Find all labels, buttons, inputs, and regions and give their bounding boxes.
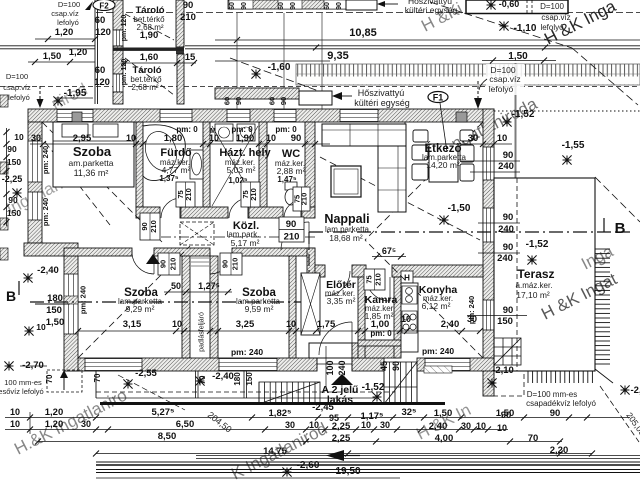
svg-text:10: 10 bbox=[10, 407, 20, 417]
dim line row3 bbox=[38, 441, 562, 443]
wardrobe bedroom2 bbox=[301, 273, 320, 335]
window bottom wall 2 bbox=[219, 359, 277, 371]
svg-text:am.parketta: am.parketta bbox=[69, 158, 114, 168]
svg-text:90: 90 bbox=[279, 97, 288, 105]
hatch strip below kitchen bbox=[424, 366, 452, 373]
svg-text:90: 90 bbox=[503, 150, 514, 161]
window bottom wall 3 bbox=[425, 359, 470, 371]
svg-text:210: 210 bbox=[249, 188, 258, 201]
svg-text:10: 10 bbox=[286, 319, 296, 329]
svg-text:210: 210 bbox=[180, 12, 196, 23]
svg-text:10: 10 bbox=[10, 419, 20, 429]
window east wall bbox=[483, 208, 494, 242]
storage wall with windows bbox=[113, 0, 123, 30]
svg-text:-2,: -2, bbox=[630, 385, 640, 396]
svg-text:10: 10 bbox=[172, 319, 182, 329]
black triangle marker bbox=[146, 254, 160, 264]
partition V4 WC|Nappali bbox=[305, 122, 315, 207]
svg-text:210: 210 bbox=[300, 193, 309, 206]
svg-text:-1,60: -1,60 bbox=[268, 62, 291, 73]
svg-text:32⁵: 32⁵ bbox=[401, 407, 416, 418]
svg-text:30: 30 bbox=[81, 419, 91, 429]
left dim chain bbox=[6, 128, 8, 226]
toilet bbox=[285, 182, 297, 190]
svg-text:120: 120 bbox=[94, 77, 110, 88]
svg-text:2,40: 2,40 bbox=[441, 319, 460, 330]
svg-text:-2,25: -2,25 bbox=[2, 174, 23, 184]
entry steps left bbox=[47, 370, 82, 392]
svg-text:pm: 240: pm: 240 bbox=[41, 198, 50, 226]
svg-text:17,10 m²: 17,10 m² bbox=[516, 290, 550, 300]
svg-text:210: 210 bbox=[168, 258, 177, 271]
svg-text:90: 90 bbox=[290, 2, 297, 10]
stairs center bbox=[259, 382, 320, 404]
wall band above building (canopy) bbox=[215, 88, 299, 99]
svg-text:210: 210 bbox=[149, 220, 158, 233]
svg-text:1,20: 1,20 bbox=[45, 407, 64, 418]
svg-text:csap.víz: csap.víz bbox=[3, 83, 31, 92]
svg-text:á.máz.ker.: á.máz.ker. bbox=[516, 281, 553, 290]
svg-text:4,00: 4,00 bbox=[435, 433, 454, 444]
bed bbox=[53, 122, 134, 187]
svg-text:-2,40: -2,40 bbox=[37, 265, 59, 276]
property dashed line bbox=[96, 12, 640, 14]
svg-text:pm: 120: pm: 120 bbox=[121, 15, 128, 42]
door 90/210 bedroom lower1 bbox=[158, 253, 180, 275]
leader lines bbox=[236, 13, 238, 109]
svg-text:9,35: 9,35 bbox=[327, 50, 348, 62]
window west wall lower bbox=[64, 274, 78, 334]
svg-text:Nappali: Nappali bbox=[324, 212, 369, 226]
door arc WC bbox=[284, 200, 302, 218]
svg-text:5,17 m²: 5,17 m² bbox=[231, 238, 260, 248]
svg-text:8,50: 8,50 bbox=[158, 431, 177, 442]
svg-text:210: 210 bbox=[184, 188, 193, 201]
roof hip dashes bbox=[42, 122, 162, 242]
svg-text:18,68 m²: 18,68 m² bbox=[329, 233, 363, 243]
svg-text:lefolyó: lefolyó bbox=[489, 84, 514, 94]
west step wall bbox=[24, 243, 78, 256]
coffee table bbox=[331, 166, 361, 197]
road lines bottom bbox=[196, 455, 640, 457]
spot -2,10 right edge bbox=[620, 385, 629, 394]
door arc Házt.hely bbox=[229, 198, 249, 218]
window top wall x57 bbox=[57, 110, 93, 122]
kitchen counter bbox=[401, 283, 418, 352]
svg-text:1,80: 1,80 bbox=[164, 133, 183, 144]
dim line row2 bbox=[30, 429, 508, 431]
svg-text:10: 10 bbox=[266, 133, 276, 143]
south walkway lines bbox=[95, 371, 97, 398]
svg-text:240: 240 bbox=[497, 253, 513, 264]
wall H2b north of Előtér/Kamra/Konyha bbox=[315, 265, 325, 277]
svg-text:70: 70 bbox=[528, 433, 539, 444]
dim 50 1,27 bbox=[164, 291, 232, 293]
svg-text:10: 10 bbox=[309, 420, 319, 430]
svg-text:100 mm-es: 100 mm-es bbox=[4, 378, 42, 387]
dashed site diagonals bbox=[230, 58, 332, 96]
svg-text:3,35 m²: 3,35 m² bbox=[327, 296, 356, 306]
svg-text:kültéri egység: kültéri egység bbox=[354, 98, 410, 108]
door arc entrance bbox=[319, 322, 352, 355]
storage roof dashes bbox=[125, 14, 174, 40]
svg-text:2,25: 2,25 bbox=[332, 433, 351, 444]
svg-text:30: 30 bbox=[468, 133, 479, 144]
svg-text:30: 30 bbox=[380, 420, 390, 430]
svg-text:1,50: 1,50 bbox=[46, 317, 65, 328]
svg-text:90: 90 bbox=[234, 97, 243, 105]
door arc Fürdő bbox=[161, 198, 181, 218]
window top wall x227 bbox=[227, 110, 250, 122]
street line bbox=[215, 39, 640, 41]
svg-text:70: 70 bbox=[45, 374, 54, 383]
plot boundary grey bbox=[515, 63, 517, 178]
partition V3 Házt|WC bbox=[259, 122, 267, 207]
svg-text:90: 90 bbox=[336, 2, 343, 10]
concrete pier bbox=[72, 112, 82, 122]
svg-text:15: 15 bbox=[185, 52, 196, 63]
left vertical for rows bbox=[29, 412, 31, 434]
window top wall x274 bbox=[274, 110, 296, 122]
svg-text:90: 90 bbox=[140, 222, 149, 230]
svg-text:lefolyó: lefolyó bbox=[8, 93, 30, 102]
svg-text:lefolyó: lefolyó bbox=[540, 23, 564, 32]
svg-text:10: 10 bbox=[497, 423, 507, 433]
svg-text:90: 90 bbox=[8, 195, 18, 205]
window top wall x340 bbox=[340, 110, 378, 122]
door 75/210 fürdő bbox=[176, 182, 195, 207]
svg-text:D=100 mm-es: D=100 mm-es bbox=[527, 390, 577, 399]
svg-text:pm: 120: pm: 120 bbox=[121, 59, 128, 86]
svg-text:240: 240 bbox=[337, 360, 347, 375]
svg-text:1,90: 1,90 bbox=[140, 30, 159, 41]
svg-text:2,25: 2,25 bbox=[332, 421, 351, 432]
svg-text:D=100: D=100 bbox=[58, 0, 80, 9]
washbasin bbox=[190, 150, 203, 179]
svg-text:3,25: 3,25 bbox=[236, 319, 255, 330]
terrace outline bbox=[494, 178, 595, 371]
svg-text:240: 240 bbox=[498, 224, 514, 235]
svg-text:90: 90 bbox=[183, 0, 194, 11]
window top wall x160 bbox=[160, 110, 192, 122]
svg-text:30: 30 bbox=[31, 133, 41, 143]
storage east wall bbox=[176, 0, 184, 47]
svg-text:-1,52: -1,52 bbox=[512, 109, 535, 120]
svg-text:kültéri egység: kültéri egység bbox=[405, 5, 458, 15]
svg-text:210: 210 bbox=[374, 273, 383, 286]
door arc Kamra bbox=[366, 277, 390, 301]
svg-text:240: 240 bbox=[498, 161, 514, 172]
svg-text:-1,55: -1,55 bbox=[562, 140, 585, 151]
svg-text:60: 60 bbox=[268, 97, 277, 105]
svg-text:1,75: 1,75 bbox=[317, 319, 336, 330]
svg-text:csap.víz: csap.víz bbox=[541, 13, 570, 22]
stairs right of entrance bbox=[384, 362, 417, 404]
svg-text:150: 150 bbox=[7, 208, 21, 218]
svg-text:30: 30 bbox=[285, 420, 295, 430]
svg-text:150: 150 bbox=[7, 157, 21, 167]
building bottom wall bbox=[64, 358, 317, 371]
door 75/210 kamra bbox=[364, 269, 385, 290]
svg-text:pm: 240: pm: 240 bbox=[422, 346, 454, 356]
svg-text:-2,40: -2,40 bbox=[212, 371, 234, 382]
svg-text:10: 10 bbox=[209, 133, 219, 143]
corridor boundary dash-dot bbox=[143, 236, 315, 238]
svg-text:11,36 m²: 11,36 m² bbox=[74, 168, 109, 178]
svg-text:D=100: D=100 bbox=[540, 2, 564, 11]
svg-text:1,20: 1,20 bbox=[45, 419, 64, 430]
svg-text:pm: 0: pm: 0 bbox=[231, 125, 253, 134]
fence hatched band bbox=[228, 0, 352, 9]
marker F2 bbox=[93, 0, 115, 11]
svg-text:pm: 240: pm: 240 bbox=[231, 347, 263, 357]
svg-text:90: 90 bbox=[550, 408, 561, 419]
downpipe arrow top-left bbox=[39, 86, 41, 99]
svg-text:90: 90 bbox=[503, 242, 514, 253]
svg-text:2,20: 2,20 bbox=[550, 445, 569, 456]
sofa bbox=[322, 124, 406, 146]
svg-text:1,47⁵: 1,47⁵ bbox=[277, 175, 297, 184]
svg-text:210: 210 bbox=[284, 232, 300, 243]
heat pump unit 1 bbox=[346, 0, 377, 10]
attic ladder rungs bbox=[191, 258, 209, 266]
svg-text:60: 60 bbox=[324, 2, 331, 10]
svg-text:-1,10: -1,10 bbox=[514, 23, 537, 34]
svg-text:2,40: 2,40 bbox=[429, 421, 448, 432]
washing machines bbox=[215, 124, 233, 141]
kitchen door east wall bbox=[483, 300, 494, 330]
svg-text:lefolyó: lefolyó bbox=[57, 18, 79, 27]
svg-text:10,85: 10,85 bbox=[349, 27, 377, 39]
svg-text:90: 90 bbox=[241, 2, 248, 10]
svg-text:180: 180 bbox=[47, 293, 63, 304]
svg-text:90: 90 bbox=[221, 260, 230, 268]
door arc corridor-Nappali bbox=[281, 222, 309, 250]
svg-text:10: 10 bbox=[476, 421, 486, 431]
svg-text:180: 180 bbox=[233, 372, 242, 386]
svg-text:csap.víz: csap.víz bbox=[51, 9, 79, 18]
appliance cross Házt.hely bbox=[212, 126, 258, 206]
svg-text:H: H bbox=[404, 274, 410, 283]
svg-text:-2,55: -2,55 bbox=[135, 368, 157, 379]
svg-text:75: 75 bbox=[364, 275, 373, 283]
door 90/210 bedroom1 top bbox=[140, 213, 160, 240]
Kamra bottom wall bbox=[358, 340, 407, 346]
dim row top rooms bbox=[30, 143, 330, 145]
svg-text:10: 10 bbox=[361, 420, 371, 430]
svg-text:esővíz lefolyó: esővíz lefolyó bbox=[0, 387, 44, 396]
bathtub bbox=[143, 125, 185, 181]
svg-text:2,95: 2,95 bbox=[73, 133, 92, 144]
svg-text:60: 60 bbox=[229, 2, 236, 10]
svg-text:90: 90 bbox=[159, 260, 168, 268]
dim row lower rooms bbox=[78, 330, 480, 332]
svg-text:Terasz: Terasz bbox=[517, 267, 554, 281]
dashed line below strip bbox=[0, 86, 640, 88]
storage building west wall line bbox=[94, 0, 96, 104]
svg-text:B: B bbox=[615, 220, 626, 237]
svg-text:120: 120 bbox=[95, 27, 111, 38]
svg-text:5,03 m²: 5,03 m² bbox=[227, 165, 256, 175]
svg-text:-1,52: -1,52 bbox=[362, 382, 385, 393]
door arc bedroom2 bbox=[210, 252, 232, 274]
door 90/210 bedroom lower2 bbox=[220, 253, 242, 275]
svg-text:pm: 240: pm: 240 bbox=[467, 296, 476, 324]
svg-text:-1,50: -1,50 bbox=[448, 203, 471, 214]
svg-text:150: 150 bbox=[497, 316, 513, 327]
sink bbox=[402, 286, 417, 304]
svg-text:pm: 0: pm: 0 bbox=[370, 329, 392, 338]
svg-text:60: 60 bbox=[95, 65, 106, 76]
svg-text:Hőszivattyú: Hőszivattyú bbox=[358, 88, 405, 98]
svg-text:10: 10 bbox=[36, 322, 46, 332]
svg-text:60: 60 bbox=[223, 97, 232, 105]
svg-text:9,29 m²: 9,29 m² bbox=[126, 304, 155, 314]
entrance recess bbox=[309, 343, 361, 358]
svg-text:-2,45: -2,45 bbox=[312, 402, 334, 413]
svg-text:3,15: 3,15 bbox=[123, 319, 142, 330]
fridge symbol H bbox=[401, 271, 413, 283]
svg-text:150: 150 bbox=[46, 305, 62, 316]
svg-text:-2,10: -2,10 bbox=[492, 365, 514, 376]
svg-text:210: 210 bbox=[230, 258, 239, 271]
svg-text:F2: F2 bbox=[99, 2, 109, 11]
building right (east) wall bbox=[483, 109, 494, 396]
arrow bbox=[85, 1, 93, 10]
svg-text:2,68 m²: 2,68 m² bbox=[131, 83, 158, 92]
svg-text:1,50: 1,50 bbox=[43, 51, 62, 62]
partition V5 bbox=[182, 256, 190, 358]
door arc Előtér-Nappali bbox=[325, 271, 350, 296]
svg-text:60: 60 bbox=[95, 15, 106, 26]
terrace inner dashed bbox=[516, 178, 518, 371]
drain dashed downpipe bbox=[477, 81, 479, 98]
svg-text:10: 10 bbox=[14, 132, 24, 142]
svg-text:pm: 240: pm: 240 bbox=[79, 286, 88, 314]
svg-text:67⁵: 67⁵ bbox=[382, 246, 396, 256]
partition V2 Fürdő|Házt.hely bbox=[203, 122, 210, 207]
svg-text:F1: F1 bbox=[433, 93, 444, 103]
svg-text:70: 70 bbox=[93, 373, 102, 382]
dotted line right of building bbox=[494, 110, 640, 112]
svg-text:10: 10 bbox=[126, 133, 136, 143]
dining table bbox=[429, 144, 458, 182]
site thick line bbox=[100, 402, 445, 405]
svg-text:19,50: 19,50 bbox=[335, 466, 360, 477]
wall segment above entrance bbox=[352, 343, 398, 358]
svg-text:-1,95: -1,95 bbox=[64, 88, 87, 99]
building left (west) wall upper bbox=[28, 122, 42, 243]
svg-text:6,12 m²: 6,12 m² bbox=[422, 301, 451, 311]
svg-text:5,27⁵: 5,27⁵ bbox=[152, 407, 175, 418]
neighbour building top right bbox=[466, 0, 568, 14]
door 75/210 házt bbox=[241, 182, 260, 207]
section arrow A bbox=[326, 450, 344, 461]
svg-text:1,60: 1,60 bbox=[140, 52, 159, 63]
dim line row1 bbox=[30, 417, 630, 419]
svg-text:Szoba: Szoba bbox=[73, 144, 112, 159]
storage middle wall bbox=[113, 48, 184, 51]
svg-text:1,82⁵: 1,82⁵ bbox=[269, 408, 292, 419]
svg-text:1,20: 1,20 bbox=[55, 27, 74, 38]
building left wall lower bbox=[64, 256, 78, 371]
svg-text:pm: 0: pm: 0 bbox=[275, 125, 297, 134]
dim line row4 bbox=[96, 453, 592, 455]
svg-text:-1,52: -1,52 bbox=[526, 239, 549, 250]
retaining wall comb bottom bbox=[524, 369, 613, 383]
section line B-B right bbox=[309, 231, 630, 233]
svg-text:90: 90 bbox=[501, 410, 512, 421]
street double line bbox=[0, 45, 95, 47]
svg-text:1,90: 1,90 bbox=[236, 133, 255, 144]
svg-text:9,59 m²: 9,59 m² bbox=[245, 304, 274, 314]
svg-text:-2,70: -2,70 bbox=[22, 360, 44, 371]
retaining wall comb right bbox=[595, 247, 610, 369]
terrace hip dash bbox=[595, 177, 640, 222]
svg-text:pm: 240: pm: 240 bbox=[41, 146, 50, 174]
svg-text:100: 100 bbox=[325, 360, 335, 375]
svg-text:90: 90 bbox=[503, 212, 514, 223]
wall connector bbox=[307, 248, 315, 277]
heat pump unit 2 bbox=[299, 91, 332, 105]
svg-text:50: 50 bbox=[171, 281, 181, 291]
wardrobe corridor (dashed) bbox=[180, 222, 214, 245]
partition V7 bbox=[289, 256, 296, 358]
svg-text:csapadékvíz lefolyó: csapadékvíz lefolyó bbox=[526, 399, 596, 408]
svg-text:-0,60: -0,60 bbox=[499, 0, 520, 9]
partition V9 Kamra|Konyha bbox=[394, 277, 401, 358]
marker F1 bbox=[428, 92, 448, 103]
svg-text:60: 60 bbox=[278, 2, 285, 10]
svg-text:B: B bbox=[6, 288, 16, 304]
door arc bedroom1 bbox=[132, 252, 154, 274]
door 75/210 wc bbox=[293, 187, 310, 211]
svg-text:90: 90 bbox=[286, 219, 297, 230]
svg-text:6,50: 6,50 bbox=[176, 419, 195, 430]
svg-text:90: 90 bbox=[7, 144, 17, 154]
drain label mid-right on strip bbox=[486, 64, 524, 95]
svg-text:pm: 0: pm: 0 bbox=[176, 125, 198, 134]
svg-text:csap.víz: csap.víz bbox=[489, 74, 520, 84]
svg-text:30: 30 bbox=[461, 421, 471, 431]
glazed terrace door bbox=[483, 147, 494, 180]
window west wall 1 bbox=[28, 141, 42, 182]
wall H1 below bathrooms bbox=[136, 207, 160, 218]
svg-text:10: 10 bbox=[497, 133, 508, 144]
svg-text:90: 90 bbox=[291, 133, 302, 144]
wall H2a corridor south bbox=[64, 248, 132, 256]
svg-text:90: 90 bbox=[503, 305, 514, 316]
entrance triangle bbox=[331, 374, 353, 385]
dining chairs bbox=[413, 130, 428, 142]
partition V8 Előtér|Kamra bbox=[358, 277, 365, 358]
building top wall bbox=[28, 109, 494, 122]
terrace lower dashed extension bbox=[494, 371, 524, 396]
sidewalk hatched strip bbox=[296, 64, 640, 85]
svg-text:D=100: D=100 bbox=[6, 72, 28, 81]
steps grid outside kitchen bbox=[494, 338, 521, 365]
svg-text:14,20 m²: 14,20 m² bbox=[426, 160, 460, 170]
svg-text:1,27⁵: 1,27⁵ bbox=[198, 281, 220, 291]
svg-text:10: 10 bbox=[401, 314, 411, 324]
stove bbox=[402, 311, 417, 333]
partition V6 bbox=[210, 256, 218, 358]
drain dashed diagonal bbox=[600, 386, 639, 442]
door 90/210 corridor bbox=[279, 217, 304, 242]
window west wall 2 bbox=[28, 192, 42, 220]
svg-text:90: 90 bbox=[391, 361, 401, 371]
section line B-B left bbox=[30, 301, 309, 303]
